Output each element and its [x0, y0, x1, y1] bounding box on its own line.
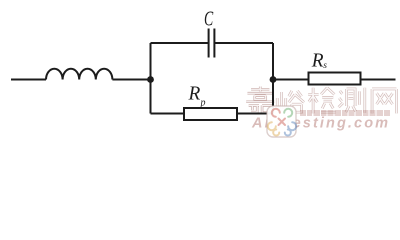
svg-text:R: R [311, 51, 324, 72]
svg-text:p: p [200, 98, 206, 109]
svg-text:R: R [188, 84, 201, 105]
svg-text:s: s [323, 61, 327, 71]
svg-text:C: C [204, 6, 214, 30]
